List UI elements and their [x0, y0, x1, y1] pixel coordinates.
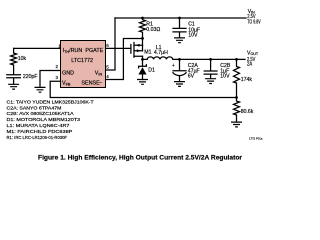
svg-text:+: + — [172, 63, 175, 69]
svg-text:174k: 174k — [241, 77, 253, 83]
svg-text:D1: MOTOROLA MBRM120T3: D1: MOTOROLA MBRM120T3 — [7, 117, 81, 122]
svg-text:C1: TAIYO YUDEN LMK325BJ106K-T: C1: TAIYO YUDEN LMK325BJ106K-T — [7, 99, 94, 104]
svg-text:10k: 10k — [18, 56, 27, 62]
svg-text:220pF: 220pF — [23, 74, 38, 80]
svg-text:M1: M1 — [144, 49, 151, 55]
svg-text:4.7µH: 4.7µH — [154, 50, 168, 56]
svg-text:1772 F01a: 1772 F01a — [249, 136, 263, 140]
svg-text:0.03Ω: 0.03Ω — [146, 27, 160, 33]
svg-text:10V: 10V — [220, 73, 230, 79]
svg-text:6: 6 — [106, 43, 109, 48]
svg-text:2A: 2A — [247, 61, 253, 67]
svg-text:L1: MURATA LQN6C-4R7: L1: MURATA LQN6C-4R7 — [7, 123, 71, 128]
svg-text:6V: 6V — [188, 73, 195, 79]
svg-text:SENSE–: SENSE– — [81, 80, 102, 86]
svg-text:10V: 10V — [188, 32, 198, 38]
svg-text:TO 9.8V: TO 9.8V — [247, 19, 261, 25]
svg-text:4: 4 — [106, 74, 109, 79]
svg-text:R1: IRC LRC-LR1206-01-R030F: R1: IRC LRC-LR1206-01-R030F — [7, 135, 68, 140]
svg-text:GND: GND — [62, 70, 74, 76]
svg-text:Figure 1. High Efficiency, Hig: Figure 1. High Efficiency, High Output C… — [38, 154, 242, 161]
svg-text:D1: D1 — [148, 67, 155, 73]
svg-text:80.6k: 80.6k — [241, 109, 254, 115]
svg-text:2: 2 — [56, 64, 59, 69]
svg-text:LTC1772: LTC1772 — [71, 58, 93, 64]
svg-text:M1: FAIRCHILD FDC638P: M1: FAIRCHILD FDC638P — [7, 129, 73, 134]
svg-text:C2B: AVX 0805ZC105KAT1A: C2B: AVX 0805ZC105KAT1A — [7, 111, 75, 116]
svg-text:C2A: SANYO 6TPA47M: C2A: SANYO 6TPA47M — [7, 105, 62, 110]
svg-text:3: 3 — [56, 75, 59, 80]
svg-text:5: 5 — [106, 65, 109, 70]
svg-text:PGATE: PGATE — [85, 48, 103, 54]
svg-text:VOUT: VOUT — [247, 50, 259, 56]
